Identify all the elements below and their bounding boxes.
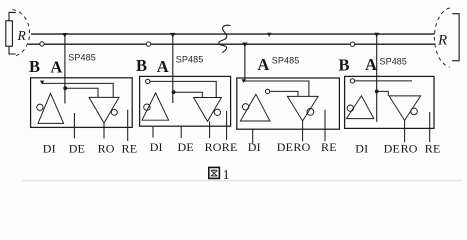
wire U2 A drop (172, 34, 174, 103)
svg-text:SP485: SP485 (272, 56, 300, 66)
receiver triangle U2 (194, 98, 222, 122)
svg-text:RE: RE (222, 140, 238, 154)
svg-text:1: 1 (223, 167, 230, 182)
junction: U4 tap on bus B (374, 33, 379, 38)
wire U2 RE (226, 111, 228, 140)
driver enable bubble U1 (37, 104, 43, 110)
pin label U2 RO (205, 140, 222, 154)
wire U2 A internal (174, 92, 203, 97)
wire U4 RE (429, 112, 431, 142)
pin label U1 DE (69, 141, 85, 155)
transceiver U4 box (345, 76, 434, 128)
svg-text:DE: DE (178, 140, 194, 154)
svg-text:DI: DI (43, 141, 56, 155)
scan artifacts (decorative) (22, 180, 462, 182)
wire U1 A drop (64, 34, 66, 104)
svg-text:RO: RO (401, 141, 418, 155)
junction: U2 tap on bus B (170, 33, 175, 38)
cable end (left, dashed ellipse) (13, 10, 30, 57)
wire U3 A internal (270, 91, 298, 96)
pin label U4 RE (425, 141, 441, 155)
wire bus line A (bottom) (28, 43, 436, 45)
svg-text:DE: DE (384, 141, 400, 155)
svg-text:A: A (50, 58, 62, 77)
driver triangle U2 (142, 93, 169, 120)
pin label U1 RO (98, 141, 115, 155)
pin label U3 RE (321, 140, 337, 154)
receiver enable bubble U1 (111, 109, 117, 115)
wire U2 DI stub (152, 126, 154, 137)
svg-text:RE: RE (321, 140, 337, 154)
wire U3 A drop (244, 44, 246, 81)
svg-text:RO: RO (293, 140, 310, 154)
label U4 B (339, 55, 350, 74)
junction dot U1 internal (63, 86, 67, 90)
wire U1 RO stub (103, 123, 105, 138)
wire U4 RO stub (404, 120, 406, 142)
junction dot U2 internal (172, 90, 176, 94)
pin label U1 DI (43, 141, 56, 155)
transceiver U2 box (140, 76, 231, 126)
wire U3 RE (324, 110, 326, 142)
wire U3 RO stub (302, 121, 304, 141)
svg-text:A: A (257, 55, 269, 74)
pin label U3 DI (248, 140, 261, 154)
label U1 SP485 (68, 53, 96, 63)
junction: U3 tap on bus A (242, 43, 247, 48)
receiver triangle U3 (287, 96, 318, 121)
label U3 SP485 (272, 56, 300, 66)
node circle U2 B entry (146, 79, 150, 83)
node circle U3 internal (265, 89, 269, 93)
svg-text:DI: DI (150, 140, 163, 154)
svg-text:DI: DI (248, 140, 261, 154)
wire U2 RO stub (209, 121, 211, 138)
label U1 B (29, 57, 40, 76)
wire U1 B internal (42, 83, 113, 97)
svg-text:A: A (157, 57, 169, 76)
wire U4 A internal (377, 91, 389, 95)
node circle U4 B entry (350, 79, 354, 83)
svg-text:B: B (29, 57, 40, 76)
pin label U3 RO (293, 140, 310, 154)
svg-text:DI: DI (355, 141, 368, 155)
label U4 A (365, 55, 377, 74)
receiver enable bubble U3 (307, 109, 314, 116)
pin label U4 DI (355, 141, 368, 155)
wire U1 RE (127, 110, 129, 141)
wire U3 B internal (244, 81, 309, 96)
node hop on bus A (U2-B) (146, 42, 150, 46)
svg-text:RE: RE (122, 141, 138, 155)
svg-text:SP485: SP485 (176, 55, 204, 65)
pin label U3 DE (277, 140, 293, 154)
pin label U4 DE (384, 141, 400, 155)
wire U1 A internal (65, 88, 98, 97)
svg-text:R: R (437, 33, 447, 49)
svg-text:DE: DE (69, 141, 85, 155)
wire U4 A drop (376, 34, 378, 122)
junction: U1 tap on bus B (62, 33, 67, 38)
pin label U2 DE (178, 140, 194, 154)
resistor R (right terminator) (452, 14, 459, 61)
driver triangle U1 (38, 93, 64, 123)
label U2 A (157, 57, 169, 76)
caption figure number 1 (223, 167, 230, 182)
resistor R (left terminator) (6, 12, 16, 54)
pin label U2 DI (150, 140, 163, 154)
node hop on bus A (U1-B) (40, 42, 44, 46)
svg-text:DE: DE (277, 140, 293, 154)
receiver triangle U4 (389, 96, 421, 121)
transceiver U3 box (237, 78, 340, 129)
receiver triangle U1 (89, 97, 119, 123)
driver triangle U4 (346, 96, 373, 119)
svg-text:RE: RE (425, 141, 441, 155)
driver enable bubble U2 (144, 104, 150, 110)
arrow U1 B entry (40, 81, 44, 85)
node hop on bus A (U4-B) (350, 42, 354, 46)
wire U1 DE stub (73, 113, 75, 138)
wire U3 DI stub (252, 129, 254, 143)
label U2 B (136, 56, 147, 75)
label U1 A (50, 58, 62, 77)
svg-text:RO: RO (98, 141, 115, 155)
driver enable bubble U4 (347, 105, 353, 111)
svg-text:B: B (136, 56, 147, 75)
receiver enable bubble U4 (411, 108, 418, 115)
cable end (right, dashed ellipse) (434, 8, 449, 67)
svg-text:B: B (339, 55, 350, 74)
arrow U3 entry (241, 79, 245, 83)
svg-text:SP485: SP485 (380, 57, 408, 67)
wire U2 B internal (150, 81, 216, 97)
transceiver U1 box (31, 78, 133, 128)
caption figure 1 glyph (209, 167, 220, 178)
junction dot U4 internal (375, 90, 379, 94)
label R (right) (437, 33, 447, 49)
pin label U1 RE (122, 141, 138, 155)
svg-text:SP485: SP485 (68, 53, 96, 63)
driver enable bubble U3 (242, 104, 248, 110)
svg-text:A: A (365, 55, 377, 74)
pin label U4 RO (401, 141, 418, 155)
bus break squiggle (219, 25, 231, 52)
label R (left) (17, 28, 27, 43)
wire U4 B internal (355, 80, 412, 82)
driver triangle U3 (240, 94, 270, 121)
receiver enable bubble U2 (214, 109, 220, 115)
label U3 A (257, 55, 269, 74)
wire bus line B (top) (31, 33, 435, 35)
label U4 SP485 (380, 57, 408, 67)
pin label U2 RE (222, 140, 238, 154)
svg-text:RO: RO (205, 140, 222, 154)
node mark on bus B (U3) (267, 33, 271, 37)
wire U2 DE stub (180, 126, 182, 138)
label U2 SP485 (176, 55, 204, 65)
svg-text:R: R (17, 28, 27, 43)
